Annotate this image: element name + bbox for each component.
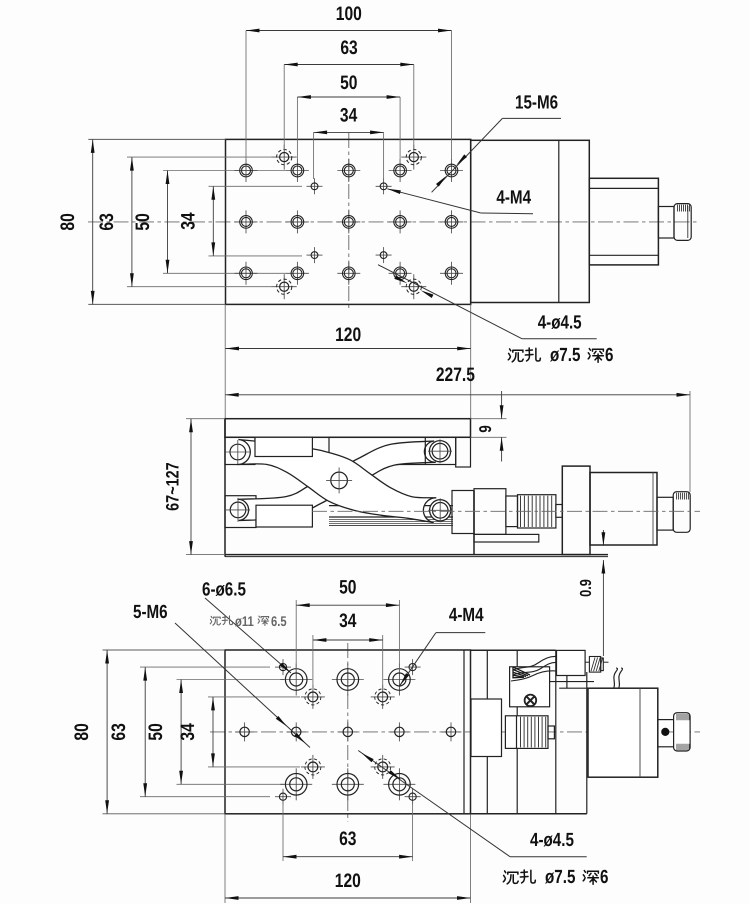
bottom view clamp leaf springs [513, 656, 557, 670]
top view micrometer knob [674, 204, 691, 241]
bottom view actuator bracket plate [471, 649, 556, 651]
svg-text:6-ø6.5: 6-ø6.5 [202, 580, 246, 601]
bottom view bearing boss [471, 699, 502, 757]
middle view leadscrew [329, 505, 453, 507]
bottom view motor top step [559, 687, 588, 689]
top view actuator housing block [471, 140, 590, 302]
top view M4 holes 4x [307, 185, 323, 187]
bottom view vertical centerline [347, 643, 349, 822]
middle view pivot lower-right [430, 500, 451, 521]
middle view motor body [590, 473, 657, 546]
dimension 34 bottom view top [313, 639, 383, 641]
svg-text:15-M6: 15-M6 [515, 93, 558, 114]
svg-text:6.5: 6.5 [271, 613, 287, 629]
svg-text:50: 50 [145, 723, 167, 740]
middle view knob neck [657, 497, 673, 530]
dimension 34 bottom view left [212, 697, 214, 767]
middle view actuator centerline [312, 510, 700, 512]
dimension 63 bottom view left [144, 667, 146, 797]
svg-text:80: 80 [71, 723, 93, 740]
bottom view connector plug [589, 657, 600, 673]
label chenkong o7.5 shen 6 (top view) [508, 349, 523, 362]
middle view upper rail block [329, 437, 456, 464]
middle view actuator bracket [474, 489, 506, 535]
top view vertical extension lines above plate [245, 31, 247, 164]
middle view pivot center [331, 472, 348, 489]
label chenkong o11 shen 6.5 (gray) [210, 616, 220, 625]
dimension 100 top [246, 30, 452, 32]
bottom view M6 center row holes 5x [235, 731, 254, 733]
top view: horizontal centerline [88, 221, 698, 223]
svg-text:6: 6 [605, 345, 613, 366]
bottom view vertical extensions bottom dims [282, 801, 284, 861]
svg-text:4-ø4.5: 4-ø4.5 [538, 313, 582, 334]
middle view base bottom line [225, 554, 608, 556]
middle view micrometer knob [673, 492, 690, 533]
dimension 67~127 stage height [186, 418, 225, 420]
svg-text:5-M6: 5-M6 [133, 602, 168, 623]
top view counterbore holes 4x [272, 156, 297, 158]
middle view scissor arm B rear [237, 441, 435, 521]
middle view knob knurl [676, 493, 678, 500]
bottom view coupling [505, 716, 548, 749]
bottom view set screw dot [662, 728, 669, 735]
bottom view plate [225, 650, 471, 814]
dimension 50 left [167, 171, 169, 274]
svg-text:4-M4: 4-M4 [496, 188, 531, 209]
svg-text:4-ø4.5: 4-ø4.5 [530, 830, 574, 851]
svg-text:9: 9 [476, 425, 495, 433]
bottom view micrometer knob [674, 713, 691, 751]
middle view upper hanging block [255, 437, 312, 456]
middle view rail divider [424, 437, 426, 464]
svg-text:63: 63 [108, 723, 130, 740]
middle view pivot lower-left [230, 502, 246, 518]
dimension 63 bottom [283, 856, 413, 858]
bottom view connector cable [613, 668, 618, 690]
top view knob knurl lines [677, 205, 679, 212]
middle view helical coupling [518, 495, 556, 528]
dimension 34 left [212, 186, 214, 256]
middle view coupling right cap [556, 505, 562, 518]
bottom view counterbore o11 holes 6x [280, 679, 312, 681]
dimension 63 left [131, 157, 133, 287]
bottom view M4 holes 4x [301, 696, 325, 698]
top view horizontal extension lines for 63/50/34 [127, 156, 272, 158]
middle view top plate [225, 419, 471, 438]
top view knob neck [658, 207, 674, 239]
dimension 50 bottom view left [180, 680, 182, 785]
middle view coupling left cap [506, 496, 518, 527]
middle view lower-left bracket [225, 496, 256, 528]
svg-text:120: 120 [335, 324, 361, 346]
label chenkong o7.5 shen 6 (bottom view) [503, 871, 518, 884]
bottom view knob neck [658, 720, 674, 747]
dimension 50 top [297, 96, 400, 98]
bottom view horizontal extension lines 63/50/34 [140, 666, 270, 668]
middle view upper-left clevis [225, 437, 255, 464]
svg-text:63: 63 [96, 213, 118, 230]
top view actuator rear block [589, 178, 658, 265]
svg-text:ø7.5: ø7.5 [550, 345, 581, 366]
middle view scissor arm A front wide [237, 440, 436, 523]
svg-text:80: 80 [57, 213, 79, 230]
bottom view vertical extensions top dims [295, 600, 297, 672]
dimension 34 top [314, 131, 384, 133]
bottom view clamp screw [525, 695, 537, 707]
dimension 80 bottom view left [106, 650, 108, 814]
svg-text:34: 34 [178, 212, 200, 229]
dimension 50 bottom view top [296, 604, 399, 606]
svg-text:ø11: ø11 [235, 613, 254, 629]
dimension 120 bottom [225, 897, 471, 899]
middle view bracket foot [474, 534, 539, 542]
top view M6 hole grid 15x [235, 170, 258, 172]
bottom view extension lines left [103, 649, 226, 651]
bottom view knob knurl [676, 714, 678, 721]
bottom view horizontal centerline [210, 731, 700, 733]
svg-text:50: 50 [340, 72, 357, 94]
top view: vertical centerline [348, 133, 350, 310]
top view extension lines left [88, 138, 225, 140]
middle view right skirt [456, 437, 471, 467]
middle view left edge [224, 419, 226, 557]
top view rear block inner lines [589, 187, 658, 189]
middle view pivot upper-left [230, 444, 246, 460]
middle view lower-right bracket [452, 491, 474, 534]
svg-text:50: 50 [132, 213, 154, 230]
svg-text:6: 6 [600, 867, 608, 888]
svg-text:34: 34 [340, 105, 357, 127]
middle view pivot upper-right [429, 441, 450, 462]
bottom view o4.5 through holes 4x [275, 666, 291, 668]
svg-text:227.5: 227.5 [436, 364, 475, 386]
svg-text:67~127: 67~127 [163, 462, 183, 510]
svg-text:63: 63 [339, 828, 356, 850]
svg-text:120: 120 [335, 870, 361, 892]
svg-text:100: 100 [336, 3, 362, 25]
bottom view coupling stub [548, 726, 554, 739]
dimension 0.9 [602, 530, 604, 546]
top view housing divider line [558, 140, 560, 302]
dimension 120 bottom of top view [224, 304, 226, 418]
svg-text:4-M4: 4-M4 [449, 605, 484, 626]
dimension 227.5 [689, 391, 691, 492]
svg-text:50: 50 [339, 577, 356, 599]
svg-text:34: 34 [177, 723, 199, 740]
bottom view clamp box [510, 667, 550, 707]
svg-text:34: 34 [339, 610, 356, 632]
dimension 9 plate thickness [471, 418, 507, 420]
middle view motor front block [562, 466, 590, 554]
bottom view motor body [588, 688, 658, 777]
top view platform plate 120x80 [226, 139, 471, 304]
svg-text:63: 63 [340, 37, 357, 59]
dimension 80 left [92, 139, 94, 304]
dimension 63 top [284, 64, 414, 66]
svg-text:ø7.5: ø7.5 [545, 867, 576, 888]
svg-text:0.9: 0.9 [578, 579, 595, 597]
bottom view connector block [557, 650, 586, 675]
middle view lower block [256, 505, 312, 527]
